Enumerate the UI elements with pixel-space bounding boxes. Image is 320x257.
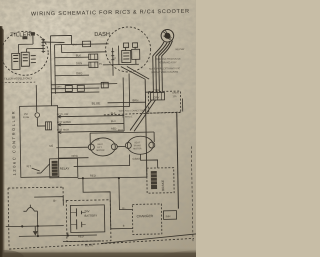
tiller enclosure (dashed ellipse) <box>1 31 49 76</box>
harness wire y52 <box>62 51 107 54</box>
wire BRN <box>108 101 146 104</box>
dash top box b <box>133 43 138 48</box>
svg-text:TRANS: TRANS <box>133 144 141 147</box>
dash meter <box>132 49 140 59</box>
svg-text:GRAY: GRAY <box>133 157 141 161</box>
paper base <box>0 0 196 257</box>
battery dashed box <box>66 200 111 242</box>
junction dot c <box>67 234 69 236</box>
harness vertical bus A <box>50 36 51 106</box>
inline connector pair a <box>65 85 72 91</box>
svg-text:BATTERY: BATTERY <box>84 214 97 218</box>
svg-text:BRKR: BRKR <box>172 93 179 95</box>
connector BLK pins <box>91 54 95 60</box>
dash enclosure (dashed ellipse) <box>105 27 151 73</box>
motor feed drops <box>90 132 154 144</box>
svg-text:KIT: KIT <box>27 164 32 168</box>
lower harness wire 3 <box>51 91 99 94</box>
dash interior wire <box>111 48 114 76</box>
ground symbol <box>33 231 38 236</box>
connector GRY <box>150 92 164 100</box>
svg-text:SW: SW <box>113 58 116 60</box>
wire BLK row <box>55 56 89 59</box>
tiller edge connector column <box>41 38 45 53</box>
svg-text:NOTE: FOR LEFT HAND USE: NOTE: FOR LEFT HAND USE <box>149 67 181 71</box>
fuse feed wire <box>35 85 37 112</box>
charger inh wire <box>177 113 179 209</box>
bottom long dashed wire <box>9 238 194 249</box>
tiller wires <box>18 35 42 53</box>
wire ORG2 <box>59 157 89 160</box>
dash wires <box>103 45 139 65</box>
harness vertical bus B <box>54 45 57 94</box>
main breaker <box>23 205 37 212</box>
svg-text:POT LOW: POT LOW <box>57 113 69 116</box>
pot wiper arrow <box>58 123 62 126</box>
junction drop wire <box>83 177 133 229</box>
svg-text:TILLER MODELS ONLY: TILLER MODELS ONLY <box>4 76 32 80</box>
svg-text:M2: M2 <box>49 144 53 148</box>
connector GRY pins <box>153 92 161 100</box>
svg-text:WHT: WHT <box>56 86 62 89</box>
tiller leader line <box>42 42 64 43</box>
battery box <box>70 205 104 233</box>
svg-text:BLK: BLK <box>111 112 116 115</box>
lower harness wire 1 <box>51 84 117 85</box>
tiller connector J1 pins <box>13 55 18 61</box>
svg-text:BLU: BLU <box>111 120 116 123</box>
svg-text:BLUE: BLUE <box>92 101 102 105</box>
dashed note line <box>1 81 35 84</box>
key switch wires <box>152 41 172 56</box>
bottom-right corner shadow <box>162 251 230 257</box>
junction dot ground <box>21 225 23 227</box>
inline breaker <box>45 122 51 130</box>
connector GRN pins <box>91 62 95 68</box>
svg-text:24V: 24V <box>84 209 89 213</box>
svg-text:BLUE: BLUE <box>85 243 93 247</box>
inline connector B/U <box>82 41 90 47</box>
controller box <box>20 106 59 178</box>
charger box <box>132 204 162 235</box>
right bus vertical 2 <box>181 99 183 112</box>
tiller connector J2 pins <box>23 55 28 61</box>
relay K1 <box>50 158 78 177</box>
paper grain <box>0 0 196 257</box>
svg-text:LIFT: LIFT <box>97 147 102 149</box>
long dashed wire <box>104 112 181 115</box>
ground drop <box>34 226 36 231</box>
wire GRAY <box>140 154 157 168</box>
pot high arrow <box>58 131 62 134</box>
svg-text:GRY: GRY <box>153 95 159 99</box>
wire YEL <box>145 91 152 93</box>
brake assembly <box>147 168 174 193</box>
svg-text:TILLER: TILLER <box>10 32 31 38</box>
svg-text:CHARGER: CHARGER <box>137 214 154 218</box>
inline connector pair b <box>77 85 84 91</box>
pot low row <box>58 116 124 117</box>
svg-text:B/U: B/U <box>73 42 78 46</box>
dash top box a <box>124 43 129 48</box>
svg-text:INH: INH <box>166 214 171 218</box>
key switch <box>161 29 174 42</box>
svg-text:KEYSW: KEYSW <box>176 48 185 51</box>
svg-text:MOTOR: MOTOR <box>96 150 105 152</box>
bottom shadow band <box>0 248 196 257</box>
bottom-left corner shadow <box>0 250 24 257</box>
connector on BLK row <box>89 54 98 60</box>
svg-text:SEE ALT WIRE DIAGRAM: SEE ALT WIRE DIAGRAM <box>151 71 178 74</box>
pot low arrow <box>58 115 62 118</box>
svg-text:RELAY: RELAY <box>60 167 70 171</box>
svg-text:ORG: ORG <box>76 71 82 75</box>
junction dot a <box>37 225 39 227</box>
dash exit diagonals <box>121 66 149 79</box>
svg-text:GRN: GRN <box>76 61 82 65</box>
battery feed top <box>34 197 63 207</box>
wire RED row <box>78 177 147 178</box>
inline connector c pin <box>103 82 105 87</box>
svg-text:BLK: BLK <box>118 128 123 132</box>
tiller connector J1 <box>12 53 20 69</box>
tiller pin ticks <box>31 56 36 63</box>
inline breaker pins <box>47 122 49 130</box>
fuse lower wire <box>37 118 45 126</box>
harness ladder top wire <box>50 35 71 44</box>
tiller connector J2 <box>21 52 29 66</box>
main breaker drop <box>36 211 38 236</box>
inhibit connector box <box>163 211 176 220</box>
motor link wire <box>117 146 125 148</box>
wire ORG row <box>55 74 89 77</box>
junction dot red <box>82 177 84 179</box>
key switch hatch <box>163 30 171 40</box>
svg-text:SEAT: SEAT <box>97 143 103 146</box>
svg-text:BLK: BLK <box>76 53 81 57</box>
wire BLUE row <box>58 106 130 107</box>
kit arrow <box>32 168 40 171</box>
dashed box around connector <box>148 91 180 113</box>
svg-text:TIRE AND TRANSAXLE: TIRE AND TRANSAXLE <box>156 58 181 61</box>
fuse F1 <box>35 113 40 118</box>
svg-text:RED: RED <box>90 174 96 178</box>
pot wiper row <box>58 124 124 125</box>
svg-text:BRN: BRN <box>132 98 138 102</box>
svg-text:WIRE AND CONNECTORS: WIRE AND CONNECTORS <box>119 109 147 112</box>
brake cable diagonals <box>130 100 157 131</box>
inline connector c <box>101 82 108 88</box>
harness wire y44 <box>55 43 109 46</box>
connector on GRN row <box>89 62 98 68</box>
lower harness wire 2 <box>51 87 99 90</box>
motor return wire <box>73 154 129 166</box>
svg-text:RED: RED <box>111 127 117 130</box>
battery enclosure bottom edge <box>63 240 101 243</box>
junction dot b <box>37 235 39 237</box>
left photo edge <box>0 26 5 257</box>
key switch center <box>164 33 170 39</box>
tiller key tag <box>31 32 35 36</box>
wire M2 <box>56 146 88 149</box>
key-switch connector pins <box>123 53 129 59</box>
svg-text:POT WIPER: POT WIPER <box>57 121 71 124</box>
svg-text:B+: B+ <box>53 199 57 203</box>
seat lift motor <box>88 138 117 157</box>
wire BLK motor <box>90 132 154 133</box>
svg-text:SEAT: SEAT <box>134 141 140 144</box>
svg-text:BRAKE: BRAKE <box>161 180 165 191</box>
tiller mini connector <box>22 36 27 39</box>
right bus vertical <box>145 79 147 177</box>
svg-text:15A: 15A <box>172 95 177 98</box>
charger B minus wire <box>111 227 133 229</box>
harness vertical x63 <box>61 45 63 53</box>
key-switch connector (dash) <box>122 50 131 62</box>
svg-text:ORG: ORG <box>71 154 77 158</box>
wire GRN row <box>55 64 89 67</box>
svg-text:POT HIGH: POT HIGH <box>57 129 69 132</box>
junction dot red right <box>118 177 120 179</box>
svg-text:MOTOR: MOTOR <box>133 148 142 150</box>
battery cells <box>76 208 81 229</box>
seat trans motor <box>125 136 155 155</box>
battery cell links <box>70 212 85 224</box>
svg-text:B-: B- <box>123 225 126 228</box>
key harness verticals <box>153 56 163 92</box>
right edge dashed wire <box>191 146 193 241</box>
relay switch lever <box>37 164 50 173</box>
bottom dashed enclosure left <box>8 187 64 248</box>
pot high row <box>58 131 124 132</box>
svg-text:DASH: DASH <box>94 32 110 38</box>
svg-text:FUSE: FUSE <box>23 116 30 119</box>
bottom right long wire <box>101 234 198 244</box>
battery bottom stub <box>67 233 69 236</box>
battery bottom wires <box>6 225 97 237</box>
pot bus vertical <box>123 73 130 131</box>
